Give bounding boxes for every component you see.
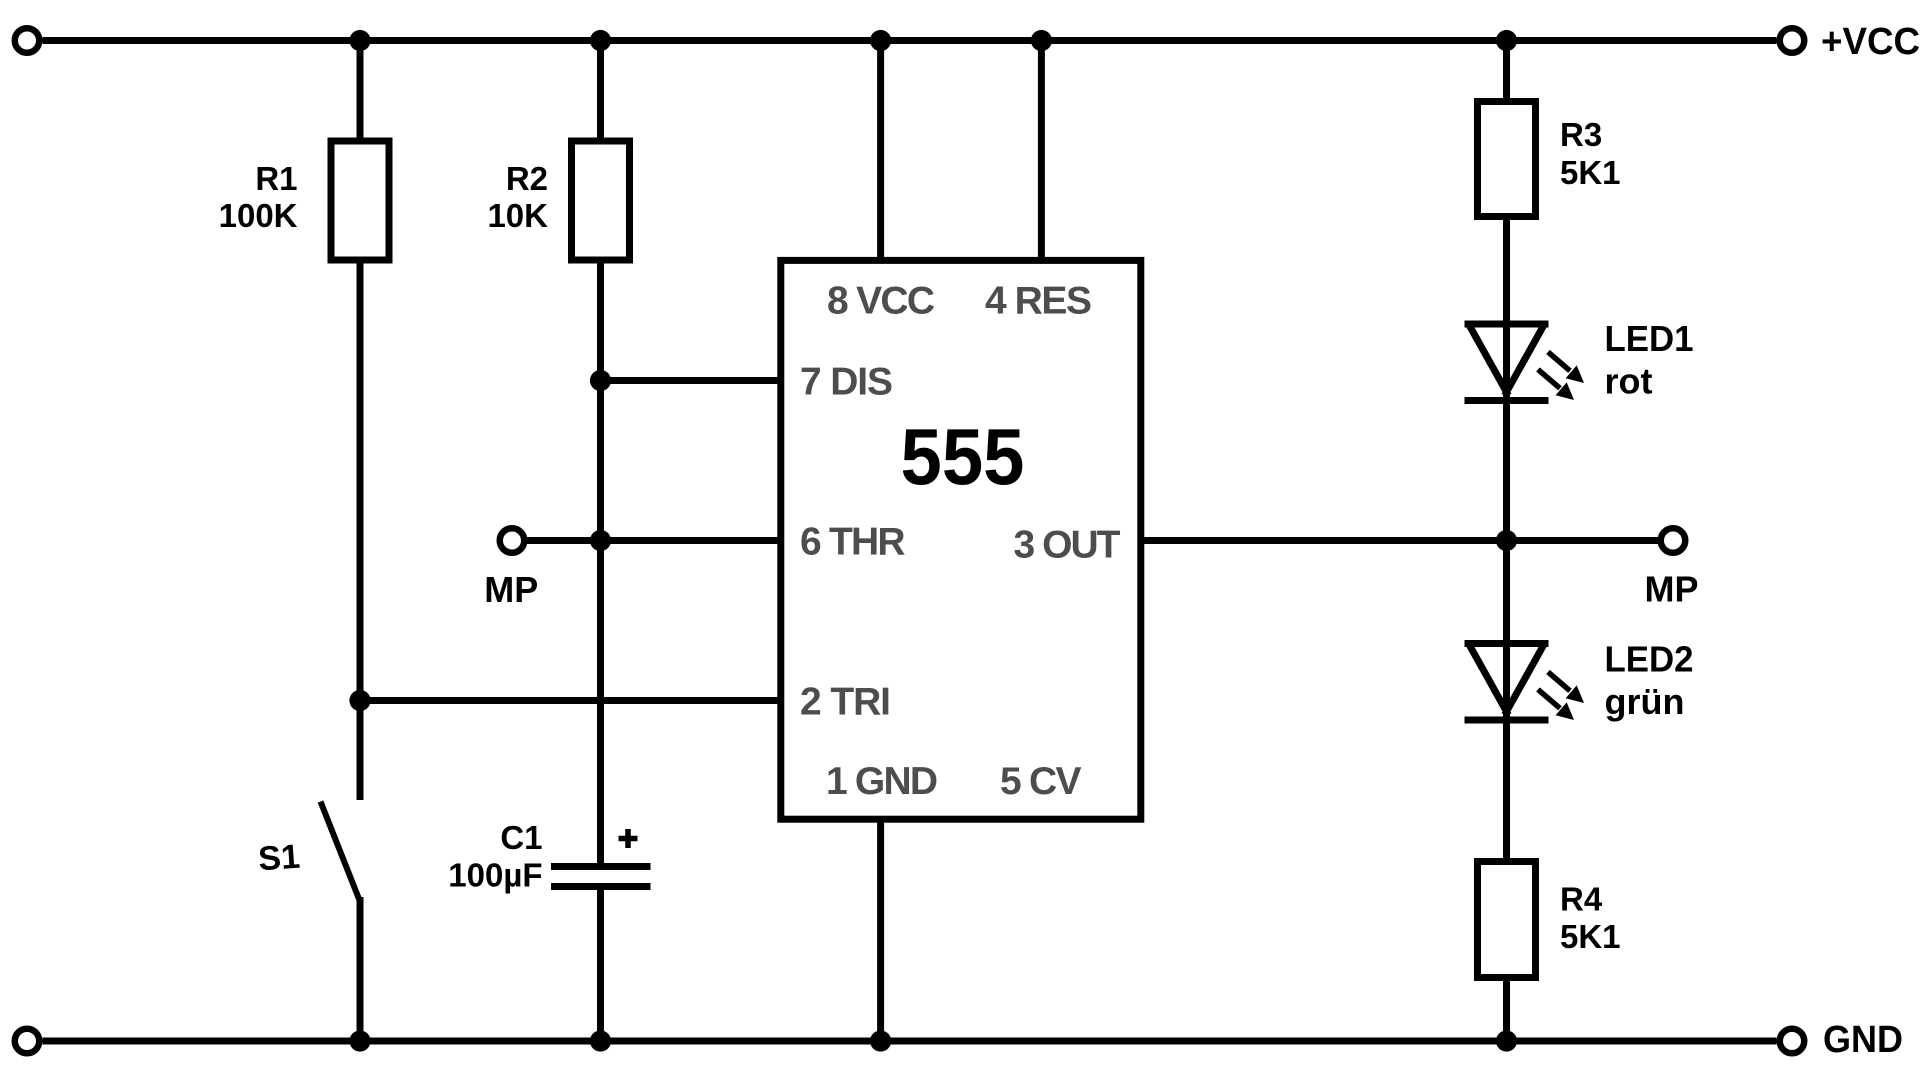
svg-text:LED2: LED2: [1605, 639, 1694, 680]
svg-text:3 OUT: 3 OUT: [1014, 524, 1121, 567]
svg-text:C1: C1: [500, 819, 542, 856]
svg-text:555: 555: [901, 412, 1025, 501]
svg-text:5 CV: 5 CV: [1000, 760, 1082, 803]
svg-text:R2: R2: [506, 160, 548, 197]
svg-text:10K: 10K: [487, 197, 548, 234]
svg-text:1 GND: 1 GND: [826, 760, 938, 803]
svg-text:R3: R3: [1560, 116, 1602, 153]
svg-text:4 RES: 4 RES: [985, 280, 1092, 323]
svg-text:5K1: 5K1: [1560, 918, 1621, 955]
svg-text:MP: MP: [484, 569, 538, 610]
svg-text:+VCC: +VCC: [1821, 21, 1920, 63]
svg-text:100µF: 100µF: [448, 857, 542, 894]
svg-text:rot: rot: [1605, 361, 1653, 402]
svg-text:MP: MP: [1645, 569, 1699, 610]
svg-text:8 VCC: 8 VCC: [827, 280, 935, 323]
svg-text:5K1: 5K1: [1560, 154, 1621, 191]
svg-text:7 DIS: 7 DIS: [800, 360, 893, 403]
svg-text:S1: S1: [257, 838, 301, 879]
svg-text:100K: 100K: [219, 197, 298, 234]
svg-text:R1: R1: [255, 160, 297, 197]
svg-text:2 TRI: 2 TRI: [800, 681, 891, 724]
svg-text:GND: GND: [1823, 1019, 1903, 1061]
svg-text:grün: grün: [1605, 681, 1685, 722]
svg-text:6 THR: 6 THR: [800, 521, 906, 564]
svg-text:LED1: LED1: [1605, 318, 1694, 359]
svg-text:R4: R4: [1560, 881, 1603, 918]
